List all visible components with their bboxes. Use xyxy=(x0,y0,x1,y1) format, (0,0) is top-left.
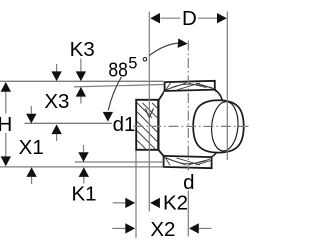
svg-text:X3: X3 xyxy=(44,90,69,113)
dimension X1 xyxy=(19,106,44,184)
top flange hatching xyxy=(165,83,213,91)
spigot leader line (88.5 deg reference), D left extension xyxy=(148,12,150,212)
K1 tick line xyxy=(75,161,163,163)
dimension X2 xyxy=(112,218,211,241)
body left chamfer top xyxy=(159,93,164,100)
body left chamfer bottom xyxy=(159,150,164,156)
dimension D xyxy=(150,7,227,30)
svg-text:d: d xyxy=(183,171,194,194)
ball body (sphere silhouette) xyxy=(193,100,244,152)
svg-text:88: 88 xyxy=(108,58,128,81)
svg-text:°: ° xyxy=(142,54,149,72)
neck fillet between top flange and ball xyxy=(215,90,222,100)
body left edge xyxy=(158,100,160,150)
top horizontal reference line xyxy=(0,80,164,82)
tilted top face extension line xyxy=(74,85,164,87)
dimension K1 xyxy=(71,145,96,206)
dimension X3 xyxy=(44,64,69,141)
top flange corner curls xyxy=(163,89,217,93)
d1 reference line xyxy=(25,122,112,124)
svg-text:d1: d1 xyxy=(113,113,136,136)
bottom flange hatching xyxy=(165,157,211,165)
vertical socket axis centreline xyxy=(187,41,189,237)
spigot (left connection) hatched wall xyxy=(136,100,158,150)
X2 K2 left extension line xyxy=(135,151,137,239)
d1 label and curved leader xyxy=(103,77,136,136)
88.5 degree angle callout xyxy=(108,38,187,81)
dimension K3 xyxy=(70,38,95,104)
svg-text:K3: K3 xyxy=(70,38,95,61)
svg-text:K1: K1 xyxy=(71,183,96,206)
open arrowhead on spigot leader xyxy=(145,109,153,118)
port axis / D right extension line xyxy=(226,12,228,161)
svg-text:H: H xyxy=(0,113,12,136)
bottom horizontal reference line xyxy=(0,166,163,168)
svg-text:X2: X2 xyxy=(150,218,175,241)
port opening ellipse on ball xyxy=(210,101,240,152)
bottom flange (wedge socket rim) xyxy=(164,156,212,168)
dimension K2 xyxy=(113,191,188,214)
neck fillet between bottom flange and ball xyxy=(212,152,217,157)
svg-text:K2: K2 xyxy=(163,191,188,214)
horizontal spigot axis centreline xyxy=(134,125,249,127)
svg-text:5: 5 xyxy=(128,54,137,72)
svg-text:D: D xyxy=(182,7,197,30)
dimension H xyxy=(0,82,12,166)
spigot hatching xyxy=(137,103,157,149)
svg-text:X1: X1 xyxy=(19,136,44,159)
top flange (tilted socket rim) xyxy=(165,81,215,91)
